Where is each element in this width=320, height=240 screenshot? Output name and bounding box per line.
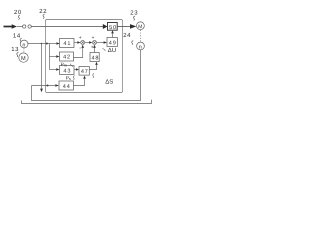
wire 41 to junction J1: [74, 42, 77, 44]
svg-text:49: 49: [109, 40, 117, 46]
node at box edge: [46, 43, 48, 45]
wire J1 to J2: [85, 42, 90, 44]
leader 24: [132, 41, 134, 45]
leader Ps: [73, 76, 74, 80]
input arrow (setpoint supply): [4, 26, 13, 28]
wire 44 to 47 bottom: [74, 79, 85, 86]
wire into 42: [50, 56, 57, 58]
tacho 24: [137, 42, 145, 50]
wire feedback into 44: [32, 85, 56, 87]
svg-text:41: 41: [63, 41, 71, 47]
svg-text:ΔS: ΔS: [105, 79, 113, 86]
svg-text:48: 48: [92, 56, 100, 62]
svg-text:47: 47: [81, 69, 89, 75]
wire input to switch: [17, 26, 23, 28]
block 49: [107, 38, 117, 47]
arrow down at box bottom: [40, 89, 43, 93]
svg-text:20: 20: [14, 9, 22, 16]
block 44: [59, 81, 74, 90]
wire switch to converter 50: [31, 26, 103, 28]
arrow into 50: [103, 24, 108, 29]
wire 50 to motor 23: [117, 26, 130, 28]
leader Pm: [70, 64, 73, 67]
svg-text:42: 42: [63, 55, 71, 61]
wire 43 to 47: [74, 69, 76, 71]
shaft link 23-24 (dotted): [139, 30, 141, 42]
svg-text:+: +: [91, 46, 94, 51]
leader dS: [93, 73, 94, 77]
svg-text:+: +: [92, 36, 95, 41]
node on 44 input: [47, 85, 49, 87]
block 43: [60, 66, 75, 75]
controller box 22: [46, 20, 123, 93]
wire into 41: [50, 43, 57, 45]
svg-text:-: -: [79, 45, 81, 51]
block 48: [90, 53, 99, 62]
wire 49 to 50: [112, 33, 114, 37]
svg-text:50: 50: [109, 25, 117, 31]
leader 14: [20, 38, 22, 43]
svg-text:44: 44: [63, 84, 71, 90]
wire 47 to 48: [89, 65, 96, 70]
svg-text:ΔU: ΔU: [108, 47, 116, 54]
summing junction J2: [92, 40, 96, 44]
wire drop from sensor line to bottom: [41, 44, 43, 89]
switch 20 contact a: [23, 25, 26, 28]
leader 20: [18, 15, 20, 20]
svg-text:13: 13: [11, 46, 19, 53]
motor 23: [137, 22, 145, 30]
svg-text:n: n: [139, 44, 142, 50]
node tap for lower drop: [41, 43, 42, 44]
wire 48 to J2 bottom: [94, 48, 96, 53]
svg-text:n: n: [22, 42, 25, 48]
svg-text:M: M: [138, 24, 142, 30]
converter block 50: [108, 23, 118, 31]
svg-text:14: 14: [13, 32, 21, 39]
svg-text:43: 43: [63, 68, 71, 74]
wire tacho 14 output: [28, 43, 50, 45]
svg-text:+: +: [79, 36, 82, 41]
distribution wire vertical: [49, 44, 51, 70]
block 47: [79, 67, 89, 76]
svg-text:M: M: [21, 56, 26, 62]
leader 22: [43, 14, 45, 19]
svg-text:Pm: Pm: [61, 62, 67, 68]
leader 13: [17, 52, 19, 57]
svg-text:23: 23: [130, 10, 138, 17]
switch 20 contact b: [28, 25, 31, 28]
block 42: [60, 52, 74, 61]
wire 42 to J1 bottom: [74, 48, 83, 58]
motor 13: [19, 53, 28, 62]
feedback wire from tacho 24 (inner loop): [32, 50, 141, 101]
leader 23: [133, 16, 135, 21]
svg-text:Ps: Ps: [66, 76, 71, 82]
summing junction J1: [81, 40, 85, 44]
shaft link 13-14 (dotted): [23, 48, 25, 53]
svg-text:24: 24: [123, 32, 131, 39]
wire J2 to 49: [97, 42, 104, 44]
wire into 43: [50, 69, 57, 71]
svg-text:22: 22: [39, 8, 47, 15]
feedback wire outer loop: [22, 100, 152, 104]
block 41: [60, 39, 75, 48]
tacho 14: [20, 40, 28, 48]
leader dU: [102, 48, 105, 51]
